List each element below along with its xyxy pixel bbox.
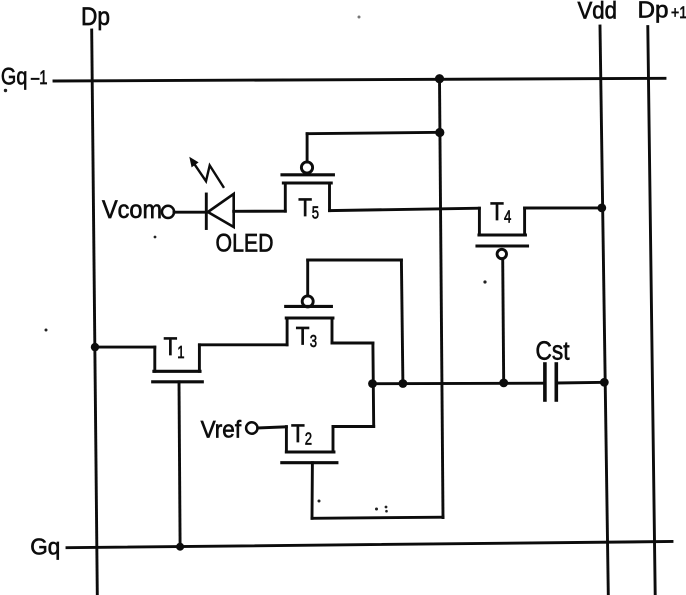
svg-text:–1: –1: [31, 68, 48, 89]
svg-text:Gq: Gq: [1, 64, 28, 91]
svg-text:T: T: [296, 322, 310, 350]
svg-text:T: T: [298, 194, 312, 222]
svg-text:Vdd: Vdd: [578, 0, 618, 24]
svg-text:T: T: [490, 198, 504, 226]
svg-text:Gq: Gq: [30, 533, 60, 559]
svg-text:5: 5: [312, 203, 319, 223]
svg-text:Vref: Vref: [201, 416, 242, 443]
svg-text:Cst: Cst: [536, 337, 570, 365]
svg-text:T: T: [164, 333, 178, 361]
svg-text:1: 1: [177, 342, 184, 362]
svg-text:4: 4: [504, 207, 511, 227]
svg-text:3: 3: [310, 331, 317, 351]
svg-text:2: 2: [305, 429, 312, 449]
svg-text:Dp: Dp: [638, 0, 669, 23]
svg-text:T: T: [291, 420, 305, 448]
svg-text:Dp: Dp: [81, 3, 110, 31]
svg-text:Vcom: Vcom: [102, 196, 162, 224]
svg-text:+1: +1: [671, 4, 686, 22]
svg-text:OLED: OLED: [216, 230, 274, 258]
